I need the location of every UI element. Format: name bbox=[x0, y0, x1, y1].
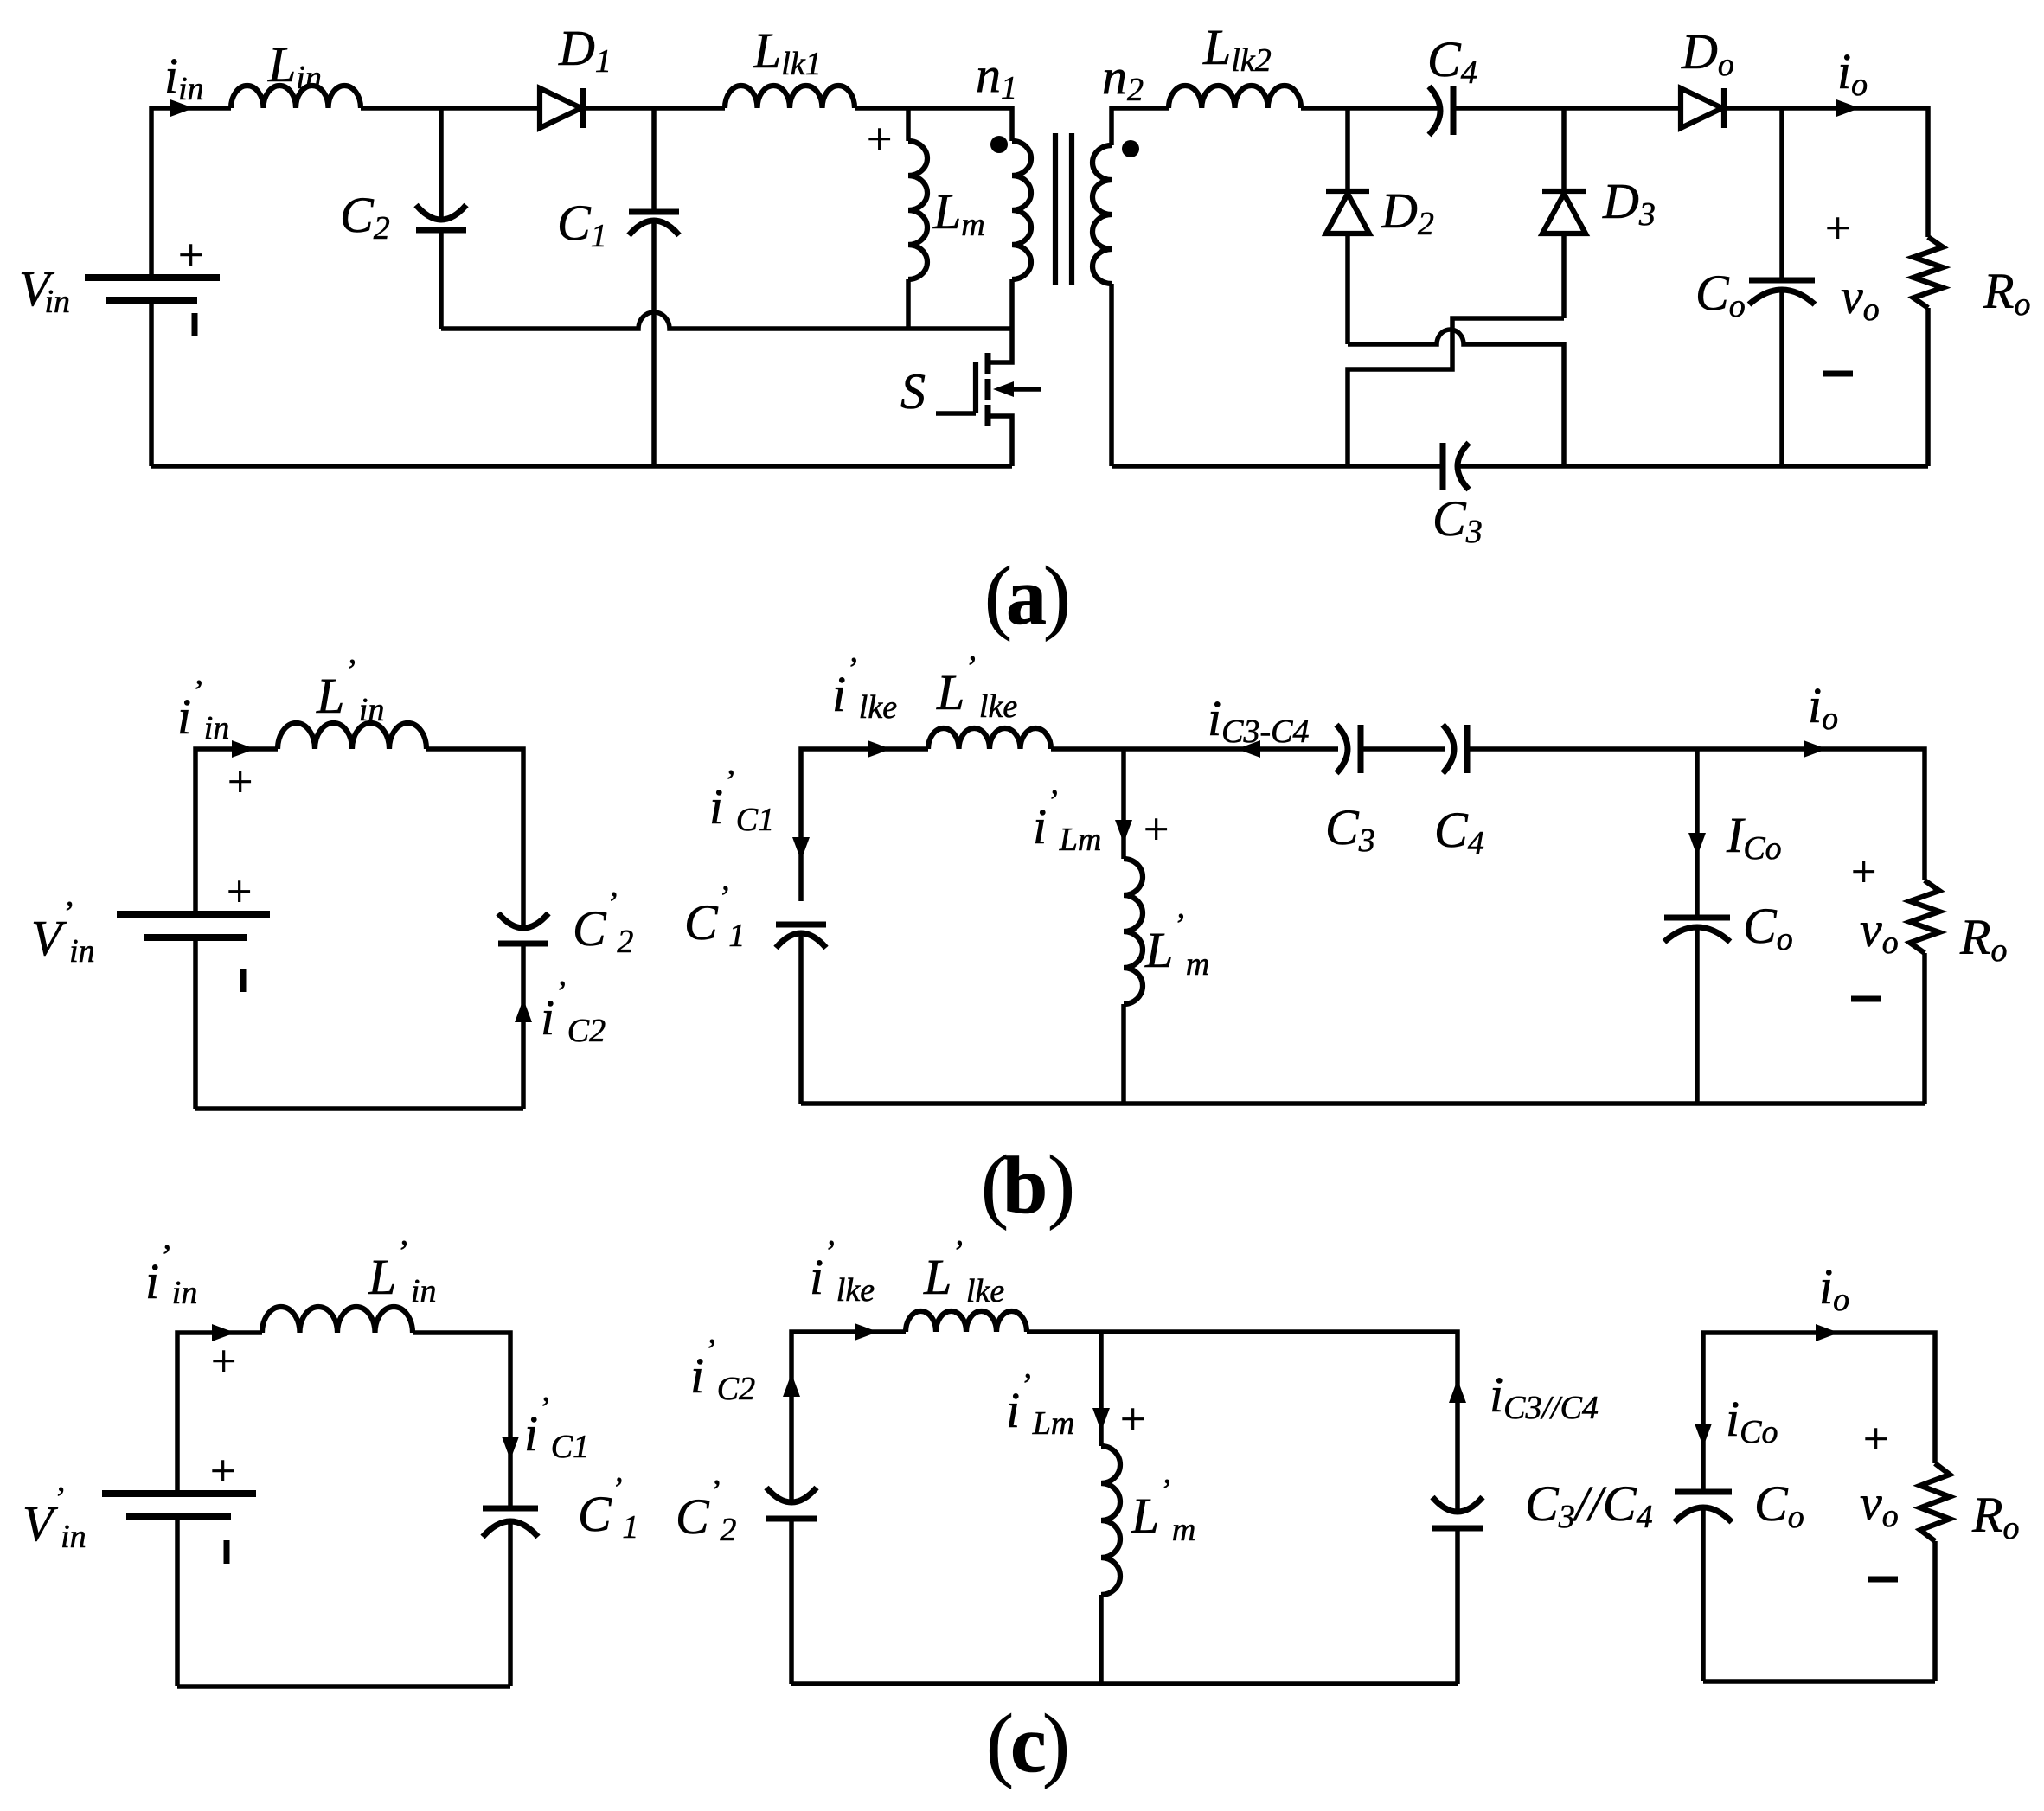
svg-text:C’2: C’2 bbox=[573, 886, 633, 960]
wire: C'2 top lead and corner (c) bbox=[791, 1332, 906, 1503]
arrow ICo (b) bbox=[1688, 833, 1706, 856]
diode D1 bbox=[540, 88, 583, 128]
svg-text:iC3-C4: iC3-C4 bbox=[1208, 690, 1309, 750]
arrow i'C2 (b) bbox=[515, 999, 532, 1022]
label Co (b) bbox=[1743, 898, 1793, 957]
label (c) bbox=[986, 1697, 1070, 1789]
capacitor C4 bbox=[1429, 86, 1453, 135]
wire: node A (Lin to D1, C2 tap) bbox=[361, 106, 540, 111]
arrow i'lke (c) bbox=[855, 1323, 878, 1341]
svg-text:i’C2: i’C2 bbox=[690, 1333, 755, 1407]
label - vo (c) bbox=[1868, 1577, 1898, 1583]
svg-text:C’1: C’1 bbox=[578, 1471, 638, 1545]
capacitor C3 (b) bbox=[1336, 725, 1361, 773]
svg-text:Llk2: Llk2 bbox=[1202, 19, 1272, 79]
label - vo (b) bbox=[1851, 996, 1881, 1002]
label D3 bbox=[1602, 173, 1656, 233]
wire: D2 anode to right of C3 (hop over D3 branch) bbox=[1348, 330, 1564, 466]
label + Lm polarity (b) bbox=[1144, 805, 1169, 854]
inductor L'lke (b) bbox=[928, 728, 1051, 749]
capacitor C'2 (c) bbox=[766, 1488, 817, 1684]
wire: bottom rail secondary side (left of C3) bbox=[1112, 464, 1441, 469]
label L'm (c) bbox=[1131, 1473, 1195, 1548]
capacitor C1 bbox=[629, 108, 679, 466]
svg-text:): ) bbox=[1043, 549, 1071, 642]
svg-text:n1: n1 bbox=[976, 47, 1017, 106]
capacitor C'1 (b) bbox=[776, 925, 826, 1104]
label L'm (b) bbox=[1144, 907, 1209, 982]
label vo (c) bbox=[1860, 1475, 1899, 1534]
node dot n2 polarity bbox=[1122, 140, 1139, 157]
resistor Ro bbox=[1913, 237, 1943, 466]
svg-text:L’in: L’in bbox=[368, 1234, 436, 1309]
wire: Co top lead and corner (c) bbox=[1703, 1333, 1935, 1492]
svg-text:i’in: i’in bbox=[145, 1238, 197, 1311]
label + after iin arrow (b) bbox=[227, 758, 253, 807]
svg-text:Ro: Ro bbox=[1971, 1487, 2019, 1546]
svg-text:Lin: Lin bbox=[267, 36, 322, 96]
arrow iC3//C4 (c) bbox=[1449, 1379, 1466, 1403]
arrow i'C1 (b) bbox=[792, 837, 810, 861]
svg-text:i’in: i’in bbox=[177, 674, 229, 746]
svg-text:L’lke: L’lke bbox=[923, 1234, 1004, 1309]
svg-text:Co: Co bbox=[1754, 1475, 1804, 1535]
svg-text:C3: C3 bbox=[1325, 799, 1375, 859]
node dot n1 polarity bbox=[990, 136, 1008, 153]
capacitor C'1 (c) bbox=[483, 1508, 538, 1686]
capacitor C3 bbox=[1443, 443, 1469, 490]
diode D3 bbox=[1542, 108, 1586, 318]
svg-text:i’Lm: i’Lm bbox=[1006, 1367, 1074, 1442]
wire: secondary top to Llk2 bbox=[1112, 108, 1169, 145]
wire: bottom rail primary side bbox=[151, 464, 1012, 469]
wire: L'in to C'2 corner (b) bbox=[426, 749, 523, 927]
source V'in battery (b) bbox=[117, 867, 270, 992]
svg-text:i’C1: i’C1 bbox=[524, 1391, 589, 1465]
diode D2 bbox=[1326, 108, 1369, 344]
label + vo (b) bbox=[1851, 848, 1876, 897]
svg-text:C’1: C’1 bbox=[684, 880, 745, 954]
arrow io (b) bbox=[1804, 740, 1827, 758]
svg-text:iC3//C4: iC3//C4 bbox=[1490, 1366, 1599, 1426]
svg-text:iin: iin bbox=[164, 48, 204, 107]
svg-text:): ) bbox=[1048, 1138, 1075, 1231]
label V'in (b) bbox=[31, 895, 95, 969]
label S bbox=[900, 363, 926, 419]
wire: bottom rail left loop (c) bbox=[177, 1684, 510, 1689]
label C'1 (b) bbox=[684, 880, 745, 954]
label iC3-C4 (b) bbox=[1208, 690, 1309, 750]
arrow i'lke (b) bbox=[868, 740, 891, 758]
label io bbox=[1837, 43, 1868, 103]
svg-text:Co: Co bbox=[1695, 265, 1746, 324]
svg-text:i’C2: i’C2 bbox=[541, 975, 606, 1049]
label + output bbox=[1825, 204, 1850, 253]
wire: top rail L'lke to C3 (b) bbox=[1051, 746, 1338, 752]
transistor S (MOSFET) bbox=[936, 329, 1041, 466]
inductor Lm bbox=[908, 108, 927, 329]
resistor Ro (b) bbox=[1910, 880, 1939, 1104]
label i'C1 (b) bbox=[709, 764, 774, 838]
svg-text:C3: C3 bbox=[1432, 490, 1483, 550]
svg-text:ICo: ICo bbox=[1726, 807, 1782, 867]
label i'in (c) bbox=[145, 1238, 197, 1311]
arrow io bbox=[1836, 99, 1860, 117]
svg-text:C2: C2 bbox=[340, 187, 390, 246]
svg-text:+: + bbox=[211, 1337, 236, 1386]
label D1 bbox=[558, 20, 612, 80]
svg-text:C3//C4: C3//C4 bbox=[1525, 1475, 1653, 1535]
wire: C'1 top lead and corner (b) bbox=[801, 749, 928, 901]
svg-text:+: + bbox=[1144, 805, 1169, 854]
label Llk2 bbox=[1202, 19, 1272, 79]
label Vin bbox=[19, 260, 70, 320]
svg-text:+: + bbox=[867, 115, 892, 164]
wire: bottom rail middle loop (c) bbox=[791, 1681, 1458, 1686]
wire: V'in bottom lead (b) bbox=[193, 937, 198, 1109]
svg-text:i’Lm: i’Lm bbox=[1033, 784, 1101, 858]
svg-text:D1: D1 bbox=[558, 20, 612, 80]
capacitor Co bbox=[1749, 108, 1815, 466]
svg-text:vo: vo bbox=[1841, 268, 1880, 328]
label C3 bbox=[1432, 490, 1483, 550]
wire: Vin negative lead (left vertical bottom) bbox=[149, 300, 154, 466]
svg-text:D3: D3 bbox=[1602, 173, 1656, 233]
label Co bbox=[1695, 265, 1746, 324]
label iin bbox=[164, 48, 204, 107]
arrow i'C2 (c) bbox=[783, 1373, 800, 1397]
label i'C2 (c) bbox=[690, 1333, 755, 1407]
wire: V'in bottom lead (c) bbox=[175, 1517, 180, 1686]
source V'in battery (c) bbox=[102, 1447, 256, 1564]
label V'in (c) bbox=[22, 1481, 87, 1555]
label i'lke (b) bbox=[832, 651, 897, 726]
svg-text:+: + bbox=[227, 867, 252, 917]
wire: Do to output node and corner bbox=[1724, 108, 1928, 237]
svg-text:b: b bbox=[1003, 1141, 1048, 1231]
svg-text:L’lke: L’lke bbox=[936, 650, 1017, 725]
svg-text:Do: Do bbox=[1681, 23, 1734, 83]
svg-text:L’m: L’m bbox=[1144, 907, 1209, 982]
label vo bbox=[1841, 268, 1880, 328]
label io (c) bbox=[1819, 1258, 1849, 1318]
inductor L'in (b) bbox=[278, 723, 426, 749]
label C4 bbox=[1427, 31, 1477, 91]
arrow i'Lm (c) bbox=[1092, 1408, 1110, 1431]
svg-text:vo: vo bbox=[1860, 901, 1899, 961]
label C3 (b) bbox=[1325, 799, 1375, 859]
svg-text:i’lke: i’lke bbox=[810, 1234, 875, 1309]
capacitor C2 bbox=[416, 108, 466, 329]
label (b) bbox=[981, 1138, 1075, 1231]
svg-text:Llk1: Llk1 bbox=[753, 22, 822, 82]
svg-text:Ro: Ro bbox=[1959, 909, 2007, 969]
wire: L'lke to right corner (c) bbox=[1027, 1332, 1458, 1513]
svg-text:C4: C4 bbox=[1434, 802, 1484, 861]
svg-text:io: io bbox=[1808, 677, 1838, 737]
inductor Llk1 bbox=[725, 86, 855, 108]
wire: bottom rail right section (b) bbox=[801, 1101, 1925, 1106]
label i'C2 (b) bbox=[541, 975, 606, 1049]
label C2 bbox=[340, 187, 390, 246]
label + after iin arrow (c) bbox=[211, 1337, 236, 1386]
wire: secondary bottom lead bbox=[1109, 284, 1114, 466]
arrow iCo (c) bbox=[1695, 1424, 1712, 1447]
svg-text:+: + bbox=[1825, 204, 1850, 253]
svg-text:Co: Co bbox=[1743, 898, 1793, 957]
wire: bottom rail secondary side (right of C3) bbox=[1458, 464, 1928, 469]
svg-text:+: + bbox=[210, 1447, 235, 1496]
svg-text:a: a bbox=[1006, 552, 1047, 642]
wire: node B (D1 to Llk1, C1 tap) bbox=[583, 106, 725, 111]
wire: bottom rail left loop (b) bbox=[195, 1106, 523, 1111]
arrow io (c) bbox=[1816, 1324, 1839, 1341]
capacitor Co (c) bbox=[1675, 1492, 1732, 1681]
wire: C4 to Ro corner (b) bbox=[1467, 749, 1925, 880]
svg-text:L’m: L’m bbox=[1131, 1473, 1195, 1548]
wire: bottom rail right loop (c) bbox=[1703, 1679, 1935, 1684]
wire: C4 to Do (node D3) bbox=[1453, 106, 1681, 111]
svg-text:Vin: Vin bbox=[19, 260, 70, 320]
label i'in (b) bbox=[177, 674, 229, 746]
svg-text:): ) bbox=[1042, 1697, 1070, 1789]
transformer core bbox=[1055, 133, 1072, 285]
svg-text:Ro: Ro bbox=[1983, 263, 2030, 323]
label n2 bbox=[1102, 48, 1144, 108]
label Ro bbox=[1983, 263, 2030, 323]
inductor L'in (c) bbox=[262, 1307, 413, 1333]
label Ro (c) bbox=[1971, 1487, 2019, 1546]
label iC3//C4 (c) bbox=[1490, 1366, 1599, 1426]
label C4 (b) bbox=[1434, 802, 1484, 861]
svg-text:Lm: Lm bbox=[932, 183, 985, 243]
svg-text:iCo: iCo bbox=[1726, 1391, 1778, 1450]
transformer secondary winding n2 bbox=[1092, 145, 1112, 284]
svg-text:i’lke: i’lke bbox=[832, 651, 897, 726]
arrow i'C1 (c) bbox=[502, 1437, 519, 1460]
capacitor C3//C4 (c) bbox=[1432, 1497, 1483, 1684]
capacitor C4 (b) bbox=[1443, 725, 1467, 773]
arrow i'in (c) bbox=[212, 1324, 235, 1341]
arrow iin bbox=[170, 99, 194, 117]
wire: Llk2 to C4 (node D2) bbox=[1301, 106, 1441, 111]
label i'Lm (c) bbox=[1006, 1367, 1074, 1442]
diode Do bbox=[1681, 88, 1724, 128]
svg-text:C1: C1 bbox=[557, 195, 607, 254]
capacitor Co (b) bbox=[1664, 749, 1730, 1104]
svg-text:C’2: C’2 bbox=[676, 1474, 736, 1548]
svg-text:c: c bbox=[1010, 1699, 1047, 1789]
label n1 bbox=[976, 47, 1017, 106]
label L'lke (b) bbox=[936, 650, 1017, 725]
label Co (c) bbox=[1754, 1475, 1804, 1535]
svg-text:D2: D2 bbox=[1381, 182, 1434, 242]
transformer primary winding n1 bbox=[1012, 141, 1031, 329]
resistor Ro (c) bbox=[1920, 1463, 1950, 1681]
wire: D3 anode to left of C3 bbox=[1348, 318, 1564, 466]
svg-text:L’in: L’in bbox=[316, 653, 384, 728]
wire: V'in top lead (b) bbox=[195, 749, 278, 914]
wire: Llk1 to transformer primary top bbox=[855, 108, 1012, 141]
label i'C1 (c) bbox=[524, 1391, 589, 1465]
label iCo (c) bbox=[1726, 1391, 1778, 1450]
label L'in (c) bbox=[368, 1234, 436, 1309]
label + Lm polarity (c) bbox=[1120, 1395, 1145, 1444]
source Vin battery bbox=[85, 231, 220, 336]
svg-text:V’in: V’in bbox=[31, 895, 95, 969]
svg-text:S: S bbox=[900, 363, 926, 419]
svg-text:+: + bbox=[178, 231, 203, 280]
svg-text:n2: n2 bbox=[1102, 48, 1144, 108]
arrow i'Lm (b) bbox=[1115, 820, 1132, 843]
label C3//C4 (c) bbox=[1525, 1475, 1653, 1535]
label vo (b) bbox=[1860, 901, 1899, 961]
label D2 bbox=[1381, 182, 1434, 242]
label io (b) bbox=[1808, 677, 1838, 737]
inductor Llk2 bbox=[1169, 86, 1301, 108]
capacitor C'2 (b) bbox=[498, 913, 548, 1109]
label Do bbox=[1681, 23, 1734, 83]
svg-text:+: + bbox=[1851, 848, 1876, 897]
inductor L'm (c) bbox=[1101, 1332, 1120, 1684]
wire: V'in top lead (c) bbox=[177, 1333, 262, 1494]
svg-text:i’C1: i’C1 bbox=[709, 764, 774, 838]
label + primary polarity bbox=[867, 115, 892, 164]
label C'2 (b) bbox=[573, 886, 633, 960]
label C'2 (c) bbox=[676, 1474, 736, 1548]
label C1 bbox=[557, 195, 607, 254]
label Ro (b) bbox=[1959, 909, 2007, 969]
label - output bbox=[1823, 371, 1853, 377]
label C'1 (c) bbox=[578, 1471, 638, 1545]
arrow i'in (b) bbox=[232, 740, 255, 758]
label L'lke (c) bbox=[923, 1234, 1004, 1309]
svg-text:C4: C4 bbox=[1427, 31, 1477, 91]
label i'lke (c) bbox=[810, 1234, 875, 1309]
label Lm bbox=[932, 183, 985, 243]
svg-text:vo: vo bbox=[1860, 1475, 1899, 1534]
arrow iC3-C4 (b) bbox=[1237, 740, 1260, 758]
label (a) bbox=[984, 549, 1071, 642]
svg-text:+: + bbox=[1120, 1395, 1145, 1444]
svg-text:+: + bbox=[1863, 1415, 1888, 1464]
svg-text:+: + bbox=[227, 758, 253, 807]
svg-text:io: io bbox=[1819, 1258, 1849, 1318]
label Lin bbox=[267, 36, 322, 96]
label ICo (b) bbox=[1726, 807, 1782, 867]
wire: C3 to C4 (b) bbox=[1361, 746, 1445, 752]
inductor Lin bbox=[231, 86, 361, 108]
label Llk1 bbox=[753, 22, 822, 82]
wire: L'in to C'1 corner (c) bbox=[413, 1333, 510, 1508]
wire: C2 bottom rail to switch node (hop over C1) bbox=[441, 312, 1012, 329]
inductor L'lke (c) bbox=[906, 1311, 1027, 1332]
wire: Vin positive lead (left vertical top) bbox=[151, 108, 231, 278]
svg-text:io: io bbox=[1837, 43, 1868, 103]
label L'in (b) bbox=[316, 653, 384, 728]
svg-text:V’in: V’in bbox=[22, 1481, 87, 1555]
label i'Lm (b) bbox=[1033, 784, 1101, 858]
label + vo (c) bbox=[1863, 1415, 1888, 1464]
inductor L'm (b) bbox=[1124, 749, 1143, 1104]
